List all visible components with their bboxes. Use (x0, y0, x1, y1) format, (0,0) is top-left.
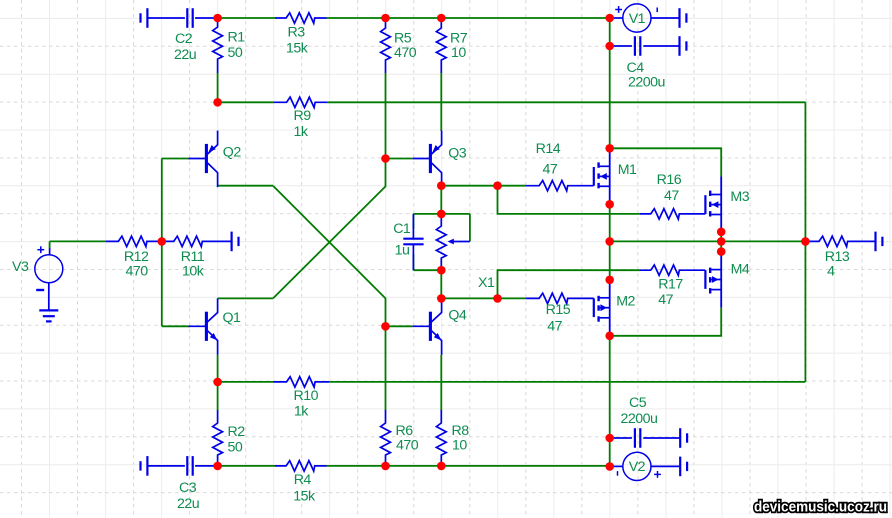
junction (213, 14, 222, 23)
wire (386, 325, 413, 327)
svg-text:2200u: 2200u (621, 411, 658, 427)
svg-text:R3: R3 (288, 24, 306, 40)
svg-text:M1: M1 (618, 162, 637, 178)
wire (441, 185, 497, 187)
svg-text:V1: V1 (629, 11, 646, 27)
wire (498, 186, 641, 214)
resistor R14 (526, 181, 594, 191)
svg-text:R9: R9 (294, 108, 312, 124)
svg-text:R11: R11 (181, 249, 205, 265)
resistor R1 (213, 19, 223, 73)
svg-text:R16: R16 (657, 172, 682, 188)
junction (381, 154, 390, 163)
svg-text:V3: V3 (12, 259, 29, 275)
svg-text:M3: M3 (730, 189, 749, 205)
svg-text:10: 10 (452, 438, 467, 454)
junction (213, 378, 222, 387)
resistor R15 (526, 293, 594, 303)
voltage source V1 (610, 17, 623, 19)
svg-text:Q1: Q1 (223, 310, 242, 326)
svg-text:2200u: 2200u (628, 75, 665, 91)
wire (440, 186, 442, 214)
wire (609, 18, 611, 148)
svg-text:C1: C1 (393, 221, 411, 237)
svg-text:15k: 15k (286, 40, 309, 56)
wire (412, 254, 414, 270)
junction (213, 462, 222, 471)
wire (441, 297, 497, 299)
junction (605, 237, 614, 246)
wire (610, 308, 722, 336)
transistor Q4 (413, 299, 442, 355)
wire (440, 355, 442, 410)
wire (413, 213, 470, 215)
resistor R12 (106, 236, 162, 246)
wire (218, 465, 275, 467)
wire (720, 232, 722, 252)
voltage source V2 (610, 465, 623, 467)
wire (610, 148, 722, 176)
svg-text:50: 50 (228, 45, 243, 61)
svg-text:R15: R15 (546, 302, 571, 318)
svg-text:47: 47 (543, 162, 558, 178)
junction (605, 42, 614, 51)
voltage source V3 (49, 248, 51, 255)
capacitor C2 (147, 17, 185, 19)
transistor M1 (593, 167, 595, 186)
capacitor C4 (610, 45, 632, 47)
svg-text:R6: R6 (396, 423, 414, 439)
transistor Q2 (205, 144, 208, 173)
junction (605, 144, 614, 153)
svg-text:R17: R17 (658, 276, 683, 292)
resistor R17 (640, 265, 705, 275)
junction (605, 14, 614, 23)
wire (804, 102, 806, 382)
svg-text:47: 47 (664, 188, 679, 204)
svg-text:R4: R4 (294, 472, 312, 488)
transistor M2 (593, 298, 595, 317)
wire (469, 214, 471, 242)
wire (329, 381, 805, 383)
ground (679, 457, 681, 477)
wire (218, 381, 274, 383)
svg-text:R8: R8 (452, 423, 470, 439)
junction (381, 462, 390, 471)
svg-text:C2: C2 (175, 31, 193, 47)
svg-text:C5: C5 (629, 395, 647, 411)
svg-text:1k: 1k (294, 404, 309, 420)
svg-text:R13: R13 (825, 249, 850, 265)
svg-text:R14: R14 (536, 141, 561, 157)
svg-text:V2: V2 (629, 459, 646, 475)
ground (231, 232, 233, 252)
junction (213, 98, 222, 107)
capacitor C5 (610, 437, 632, 439)
resistor R8 (436, 410, 446, 464)
junction (605, 276, 614, 285)
resistor R10 (274, 377, 329, 387)
svg-text:10k: 10k (182, 263, 205, 279)
junction (437, 462, 446, 471)
wire (440, 270, 442, 298)
resistor R3 (275, 13, 327, 23)
svg-text:10: 10 (451, 45, 466, 61)
svg-text:R1: R1 (228, 30, 246, 46)
wire (327, 101, 805, 103)
ground (679, 428, 681, 448)
resistor R2 (213, 410, 223, 464)
wire (386, 158, 413, 160)
svg-text:Q3: Q3 (448, 145, 467, 161)
junction (437, 181, 446, 190)
svg-text:15k: 15k (293, 488, 316, 504)
junction (717, 228, 726, 237)
resistor R4 (275, 461, 327, 471)
junction (437, 294, 446, 303)
wire (218, 297, 273, 299)
junction (717, 247, 726, 256)
svg-text:R12: R12 (124, 249, 149, 265)
resistor R9 (274, 97, 327, 107)
wire (162, 325, 190, 327)
transistor Q3 (413, 131, 442, 187)
wire (413, 269, 441, 271)
junction (717, 237, 726, 246)
transistor Q1 (205, 312, 208, 341)
svg-text:1u: 1u (395, 243, 410, 259)
resistor R5 (381, 19, 391, 73)
svg-text:Q2: Q2 (223, 144, 242, 160)
wire (412, 214, 414, 229)
ground (678, 8, 680, 28)
capacitor C3 (147, 465, 185, 467)
wire (49, 241, 51, 248)
junction (493, 181, 502, 190)
resistor R6 (381, 410, 391, 464)
wire (498, 270, 641, 298)
wire (498, 297, 527, 299)
transistor M4 (704, 270, 706, 289)
resistor R16 (640, 209, 705, 219)
svg-text:M2: M2 (616, 293, 635, 309)
ground (678, 36, 680, 56)
svg-text:R10: R10 (294, 388, 319, 404)
resistor R11 (162, 236, 232, 246)
transistor M3 (704, 195, 706, 214)
svg-text:M4: M4 (731, 262, 750, 278)
junction (437, 266, 446, 275)
wire (217, 355, 219, 382)
junction (801, 237, 810, 246)
wire (217, 73, 219, 102)
junction (158, 237, 167, 246)
svg-text:22u: 22u (177, 496, 199, 512)
resistor C1 trimmer (436, 216, 446, 268)
ground (874, 232, 876, 252)
svg-text:4: 4 (827, 264, 835, 280)
svg-text:47: 47 (547, 319, 562, 335)
ground (146, 8, 148, 28)
wire (162, 158, 190, 160)
wire (273, 186, 386, 410)
junction (605, 200, 614, 209)
wire (327, 465, 610, 467)
svg-text:R2: R2 (228, 424, 246, 440)
wire (161, 159, 163, 327)
wire (385, 73, 387, 159)
svg-text:470: 470 (126, 263, 149, 279)
resistor R7 (436, 19, 446, 73)
svg-text:50: 50 (228, 440, 243, 456)
junction (381, 14, 390, 23)
svg-text:470: 470 (396, 438, 419, 454)
junction (381, 322, 390, 331)
wire (440, 73, 442, 131)
junction (437, 210, 446, 219)
svg-text:devicemusic.ucoz.ru: devicemusic.ucoz.ru (754, 499, 887, 516)
resistor R13 (805, 236, 875, 246)
wire (218, 101, 274, 103)
ground (146, 456, 148, 476)
svg-text:C3: C3 (179, 480, 197, 496)
wire (609, 204, 611, 279)
junction (605, 434, 614, 443)
svg-text:1k: 1k (294, 124, 309, 140)
junction (605, 332, 614, 341)
capacitor C1 (412, 214, 414, 239)
svg-text:Q4: Q4 (448, 307, 467, 323)
wire (327, 17, 610, 19)
ground (39, 309, 58, 311)
wire (273, 159, 386, 299)
wire (218, 17, 275, 19)
svg-text:22u: 22u (174, 47, 196, 63)
svg-text:470: 470 (394, 45, 417, 61)
junction (605, 462, 614, 471)
wire (218, 185, 273, 187)
junction (437, 14, 446, 23)
wire (50, 240, 106, 242)
wire (609, 336, 611, 467)
wire (498, 185, 527, 187)
svg-text:47: 47 (658, 292, 673, 308)
junction (493, 294, 502, 303)
wire (610, 240, 806, 242)
svg-text:X1: X1 (478, 275, 495, 291)
wire (217, 382, 219, 410)
